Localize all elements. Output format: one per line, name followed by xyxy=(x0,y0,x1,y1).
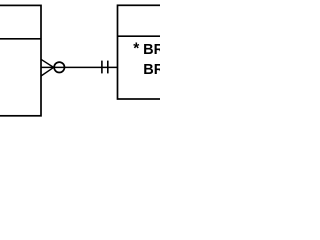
attribute text line 2: BRANCH_NAME (clipped) xyxy=(143,62,257,78)
svg-text:*: * xyxy=(133,40,140,57)
svg-text:BRANCH_NAME: BRANCH_NAME xyxy=(143,62,160,78)
entity E2 compartment divider xyxy=(118,35,173,37)
attribute text line 1: BRANCH_ID (clipped) xyxy=(143,42,228,58)
svg-text:BRANCH_ID: BRANCH_ID xyxy=(143,42,160,58)
entity box E2 (right, cropped by right edge) xyxy=(118,5,173,99)
optionality circle on relationship xyxy=(54,62,64,72)
double bar (one / mandatory) near E2 xyxy=(102,61,108,74)
entity box E1 (left, cropped by left edge) xyxy=(0,5,41,115)
crow's foot (many) at E1 xyxy=(41,59,54,76)
wire relationship line xyxy=(41,66,118,68)
attribute mandatory marker * (line 1) xyxy=(133,40,140,57)
entity E1 compartment divider xyxy=(0,38,41,40)
